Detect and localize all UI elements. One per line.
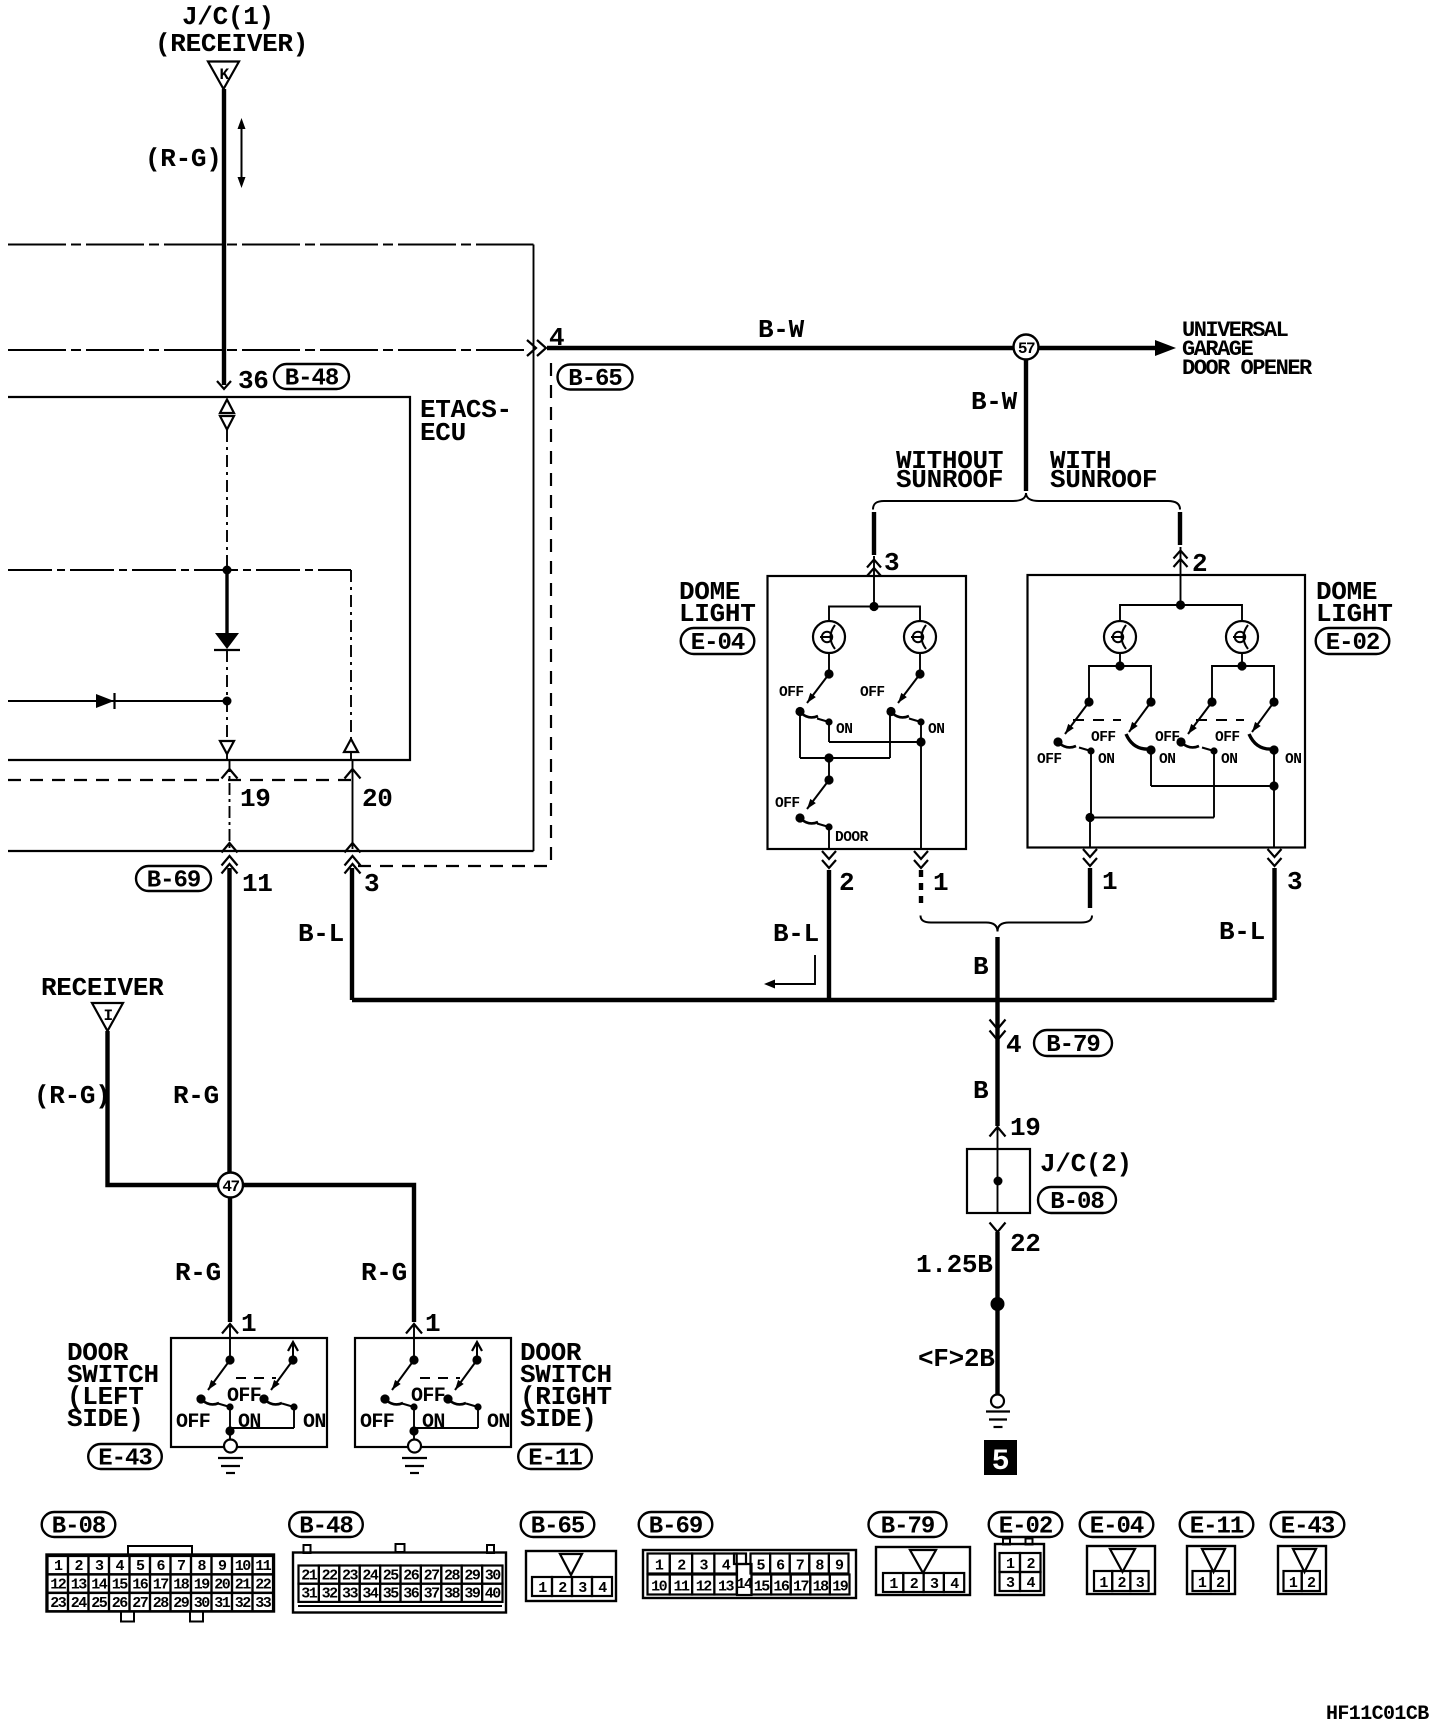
svg-text:J/C(2): J/C(2)	[1040, 1149, 1132, 1179]
lamp left E-04	[813, 621, 845, 653]
connector chevron J/C(2) pin 19	[990, 1127, 1006, 1137]
wire R-G splice 47 to left door switch	[228, 1197, 232, 1322]
wire switch1 ON down	[828, 722, 830, 742]
svg-text:I: I	[103, 1007, 112, 1025]
svg-text:R-G: R-G	[173, 1081, 219, 1111]
svg-text:B-79: B-79	[881, 1514, 935, 1541]
internal dash-dot wire right branch	[350, 570, 352, 740]
wire R-G from J/C(1) to ETACS-ECU pin 36	[222, 89, 226, 385]
connector B-79 label	[869, 1512, 947, 1537]
dome light E-04 box	[768, 576, 967, 849]
harness boundary dash-dot line upper	[8, 244, 534, 246]
connector B-69 pin table	[643, 1550, 856, 1598]
junction node	[991, 1297, 1005, 1311]
svg-text:32: 32	[235, 1595, 252, 1612]
svg-text:21: 21	[235, 1577, 252, 1594]
svg-text:SIDE): SIDE)	[520, 1404, 597, 1434]
svg-text:ON: ON	[1159, 752, 1175, 768]
svg-text:R-G: R-G	[175, 1258, 221, 1288]
svg-text:57: 57	[1018, 340, 1035, 358]
internal wire to diode	[225, 574, 228, 633]
svg-text:40: 40	[485, 1586, 502, 1603]
connector E-11 label	[1180, 1512, 1254, 1537]
svg-text:ON: ON	[238, 1411, 261, 1434]
svg-text:29: 29	[173, 1595, 190, 1612]
wire into J/C(2)	[997, 1127, 999, 1181]
svg-text:33: 33	[255, 1595, 272, 1612]
internal wire with diode arrow	[8, 700, 227, 702]
svg-text:21: 21	[301, 1568, 318, 1585]
svg-text:11: 11	[673, 1578, 690, 1595]
bidirectional arrow symbol	[241, 127, 243, 179]
internal connector triangles	[220, 400, 234, 414]
svg-text:B: B	[973, 1076, 989, 1106]
svg-text:OFF: OFF	[779, 685, 804, 701]
connector E-02 label	[989, 1512, 1063, 1537]
connector symbol I (receiver triangle)	[92, 1003, 123, 1031]
internal dash-dot wire horizontal	[8, 569, 351, 571]
door switch right internals	[409, 1355, 418, 1364]
svg-text:SIDE): SIDE)	[67, 1404, 144, 1434]
svg-text:31: 31	[301, 1586, 318, 1603]
svg-text:ON: ON	[487, 1411, 510, 1434]
svg-text:12: 12	[696, 1578, 713, 1595]
splice 57	[1014, 335, 1039, 360]
svg-text:15: 15	[112, 1577, 129, 1594]
wire lamp left down	[1119, 653, 1121, 666]
svg-text:19: 19	[240, 784, 271, 814]
wire arm1 ON down to pin1 bus	[1090, 751, 1092, 818]
wire arm4 hook down	[1273, 750, 1275, 786]
svg-text:24: 24	[71, 1595, 88, 1612]
wire to door switch arm	[828, 758, 830, 780]
svg-text:38: 38	[444, 1586, 461, 1603]
svg-text:20: 20	[362, 784, 393, 814]
splice 47	[218, 1173, 243, 1198]
svg-text:26: 26	[112, 1595, 129, 1612]
wire pivot bus E-04	[800, 757, 890, 759]
svg-text:35: 35	[383, 1586, 400, 1603]
connector chevrons E-02 pin 3	[1268, 849, 1282, 857]
svg-text:27: 27	[424, 1568, 440, 1585]
svg-text:18: 18	[173, 1577, 190, 1594]
svg-text:DOOR OPENER: DOOR OPENER	[1182, 356, 1313, 381]
connector chevrons E-04 pin 1	[914, 851, 928, 859]
internal triangle down pin19	[220, 741, 234, 754]
svg-text:17: 17	[153, 1577, 169, 1594]
svg-text:B-69: B-69	[649, 1514, 703, 1541]
svg-text:SUNROOF: SUNROOF	[1050, 465, 1157, 495]
svg-text:E-11: E-11	[528, 1446, 582, 1473]
svg-text:30: 30	[485, 1568, 502, 1585]
wire pin1 bus E-02	[1090, 817, 1214, 819]
connector chevrons E-04 pin 3	[867, 560, 881, 568]
svg-text:23: 23	[50, 1595, 67, 1612]
svg-text:B-48: B-48	[299, 1514, 353, 1541]
connector B-08 pin table	[47, 1555, 275, 1612]
harness boundary bottom solid	[8, 850, 534, 852]
arrow continuation symbol	[772, 955, 815, 984]
connector B-69 crossing pin 11	[222, 843, 238, 853]
svg-text:2: 2	[839, 868, 854, 898]
svg-text:B-79: B-79	[1046, 1032, 1100, 1059]
svg-text:1: 1	[241, 1309, 256, 1339]
svg-text:22: 22	[322, 1568, 339, 1585]
node E-02 feed junction	[1176, 600, 1185, 609]
ground symbol left	[218, 1457, 243, 1459]
connector B-65 pin table	[526, 1551, 616, 1601]
wire switch2 ON down to pin1	[920, 722, 922, 742]
svg-text:E-43: E-43	[1281, 1514, 1335, 1541]
svg-text:E-02: E-02	[1326, 630, 1380, 657]
wire B-L bus	[352, 998, 1275, 1002]
svg-text:ON: ON	[1098, 752, 1114, 768]
svg-text:1: 1	[933, 868, 948, 898]
connector B-48 label	[289, 1512, 363, 1537]
connector E-04 label	[681, 628, 755, 654]
wire from ECU pin 3 down to bus	[350, 868, 354, 1000]
svg-text:E-11: E-11	[1190, 1514, 1244, 1541]
svg-text:28: 28	[153, 1595, 170, 1612]
dashed connector boundary vertical	[550, 363, 552, 866]
ECU dashed extension line	[8, 779, 356, 781]
svg-text:3: 3	[1287, 867, 1302, 897]
wire B-L from E-04 pin 2 to bus	[827, 870, 831, 1000]
svg-text:27: 27	[132, 1595, 148, 1612]
svg-text:5: 5	[992, 1445, 1010, 1479]
svg-text:12: 12	[50, 1577, 67, 1594]
contact ON arm1 E-02	[1079, 748, 1091, 752]
connector chevrons E-02 pin 1	[1083, 849, 1097, 857]
svg-text:32: 32	[322, 1586, 339, 1603]
brace joining pin1 wires	[921, 916, 1093, 932]
wire B-W down from splice 57	[1024, 360, 1028, 491]
svg-text:36: 36	[403, 1586, 420, 1603]
svg-text:(R-G): (R-G)	[145, 144, 222, 174]
brace splitting B-W to dome lights	[873, 493, 1180, 510]
svg-text:33: 33	[342, 1586, 359, 1603]
ETACS-ECU box	[8, 397, 410, 760]
wire into E-04	[873, 556, 875, 606]
svg-text:25: 25	[383, 1568, 400, 1585]
svg-text:16: 16	[132, 1577, 149, 1594]
svg-text:B-65: B-65	[531, 1514, 585, 1541]
svg-text:7: 7	[796, 1557, 804, 1574]
svg-text:17: 17	[793, 1578, 809, 1595]
internal triangle up pin20	[344, 739, 358, 752]
svg-text:OFF: OFF	[1155, 730, 1180, 746]
dome light E-02 box	[1028, 575, 1306, 848]
connector B-79 pin table	[876, 1547, 970, 1595]
connector chevrons E-02 pin 2	[1174, 551, 1188, 559]
svg-text:ON: ON	[1285, 752, 1301, 768]
svg-text:20: 20	[214, 1577, 231, 1594]
wire stub to dome light E-02 pin 2	[1178, 512, 1182, 545]
wire 1.25B to ground	[995, 1232, 999, 1395]
svg-text:OFF: OFF	[1037, 752, 1062, 768]
svg-text:ON: ON	[836, 722, 852, 738]
svg-text:19: 19	[832, 1578, 849, 1595]
connector B-79 crossing chevrons	[990, 1020, 1006, 1030]
svg-text:ON: ON	[1221, 752, 1237, 768]
switch arm 3 E-02	[1188, 702, 1212, 734]
svg-text:39: 39	[464, 1586, 481, 1603]
connector B-69 label	[136, 866, 211, 891]
wire R-G from ECU pin 11 to splice 47	[227, 868, 231, 1173]
door switch right box	[355, 1338, 511, 1447]
svg-text:34: 34	[362, 1586, 379, 1603]
switch arm 4 E-02	[1252, 702, 1274, 732]
wire E-02 lamp feed	[1120, 605, 1242, 621]
wire B-L from E-02 pin 3 to bus	[1272, 868, 1276, 1000]
wire arm3 ON down	[1213, 751, 1215, 818]
svg-text:E-02: E-02	[999, 1514, 1053, 1541]
wire (R-G) from receiver to splice 47	[108, 1031, 220, 1185]
svg-text:15: 15	[754, 1578, 771, 1595]
svg-text:30: 30	[194, 1595, 211, 1612]
wire lamp right down	[1241, 653, 1243, 666]
svg-text:LIGHT: LIGHT	[1316, 599, 1393, 629]
svg-text:19: 19	[194, 1577, 211, 1594]
wire to B-65 pin 4 (dash-dot)	[8, 349, 524, 351]
svg-text:13: 13	[71, 1577, 88, 1594]
connector B-65 label	[558, 365, 633, 390]
svg-text:B-08: B-08	[1050, 1189, 1104, 1216]
gang dashes switch pair B	[1196, 719, 1244, 721]
diode	[215, 633, 239, 649]
svg-text:16: 16	[773, 1578, 790, 1595]
svg-text:22: 22	[1010, 1229, 1041, 1259]
svg-text:23: 23	[342, 1568, 359, 1585]
internal wire below diode	[226, 650, 228, 740]
svg-text:B-69: B-69	[147, 868, 201, 895]
svg-text:ECU: ECU	[420, 418, 466, 448]
svg-text:18: 18	[813, 1578, 830, 1595]
wire E-04 lamp feed	[829, 607, 920, 622]
wire out of J/C(2)	[997, 1181, 999, 1213]
svg-text:4: 4	[1006, 1030, 1021, 1060]
connector B-69 crossing pin 3	[345, 843, 361, 853]
svg-text:E-04: E-04	[1090, 1514, 1144, 1541]
connector B-69 label	[639, 1512, 713, 1537]
svg-text:J/C(1): J/C(1)	[182, 2, 274, 32]
svg-text:B-65: B-65	[568, 366, 622, 393]
svg-text:36: 36	[238, 366, 269, 396]
wire ECU pin 20	[352, 760, 354, 849]
door switch left box	[171, 1338, 327, 1447]
svg-text:OFF: OFF	[176, 1411, 210, 1434]
connector B-48 pin table	[293, 1553, 506, 1613]
svg-text:RECEIVER: RECEIVER	[41, 973, 164, 1003]
svg-text:10: 10	[651, 1578, 668, 1595]
svg-text:ON: ON	[422, 1411, 445, 1434]
svg-text:ON: ON	[928, 722, 944, 738]
junction block J/C(2) B-08	[967, 1149, 1030, 1213]
wire up to switch2 pivot	[889, 712, 891, 759]
svg-text:37: 37	[424, 1586, 440, 1603]
svg-text:24: 24	[362, 1568, 379, 1585]
lamp right E-04	[904, 621, 936, 653]
wire ECU pin 19	[229, 760, 231, 849]
ground symbol right	[402, 1457, 427, 1459]
contact DOOR E-04	[817, 824, 829, 828]
door switch left internals	[225, 1355, 234, 1364]
svg-text:OFF: OFF	[360, 1411, 394, 1434]
svg-text:7: 7	[177, 1558, 185, 1575]
wire to pin 3 E-02	[1273, 786, 1275, 848]
wire to pin 1 E-02	[1089, 818, 1091, 848]
svg-text:B-08: B-08	[52, 1514, 106, 1541]
svg-text:(RECEIVER): (RECEIVER)	[155, 29, 308, 59]
svg-text:OFF: OFF	[1215, 730, 1240, 746]
wire B down from brace	[995, 937, 999, 1126]
connector E-43 label	[1271, 1512, 1345, 1537]
wire R-G splice 47 to right door switch	[243, 1185, 414, 1322]
svg-text:B-48: B-48	[285, 366, 339, 393]
connector chevron ECU pin 36	[217, 381, 231, 389]
svg-text:28: 28	[444, 1568, 461, 1585]
svg-text:OFF: OFF	[1091, 730, 1116, 746]
ground symbol	[991, 1395, 1004, 1408]
switch arm 2 E-02	[1129, 702, 1151, 732]
svg-text:29: 29	[464, 1568, 481, 1585]
svg-text:<F>2B: <F>2B	[918, 1344, 995, 1374]
connector B-65 crossing chevrons	[527, 340, 536, 356]
connector B-79 label	[1034, 1030, 1112, 1056]
svg-text:E-43: E-43	[98, 1446, 152, 1473]
svg-text:22: 22	[255, 1577, 272, 1594]
svg-text:11: 11	[255, 1558, 272, 1575]
svg-text:31: 31	[214, 1595, 231, 1612]
connector E-02 pin table	[995, 1544, 1044, 1595]
connector E-04 pin table	[1087, 1546, 1155, 1594]
svg-text:3: 3	[364, 869, 379, 899]
connector E-11 pin table	[1187, 1546, 1235, 1594]
lamp right E-02	[1226, 621, 1258, 653]
svg-text:1: 1	[425, 1309, 440, 1339]
svg-text:3: 3	[884, 548, 899, 578]
connector symbol K (J/C(1) receiver triangle)	[208, 62, 239, 90]
wire split to switch arms 1-2	[1089, 666, 1151, 702]
gang dashes switch pair A	[1073, 719, 1121, 721]
wire into E-02	[1180, 547, 1182, 605]
connector chevron door switch right pin 1	[406, 1324, 422, 1334]
dashed wire from E-04 pin 1	[919, 870, 923, 908]
internal node	[223, 566, 232, 575]
svg-text:R-G: R-G	[361, 1258, 407, 1288]
connector chevron door switch left pin 1	[222, 1324, 238, 1334]
connector B-08 label	[42, 1512, 116, 1537]
connector B-48 label	[274, 364, 349, 389]
wire stub to dome light E-04 pin 3	[872, 512, 876, 555]
internal wire dash-dot	[226, 430, 228, 566]
switch arm 2 E-04	[898, 674, 920, 703]
connector E-43 pin table	[1278, 1546, 1326, 1594]
wire ON bus E-04	[829, 741, 921, 743]
ground circle left door switch	[224, 1440, 237, 1453]
contact ON switch1 E-04	[817, 719, 829, 723]
svg-text:10: 10	[235, 1558, 252, 1575]
wire arm2 hook down	[1150, 750, 1152, 786]
wire B-W to universal garage door opener	[547, 346, 1158, 350]
svg-text:LIGHT: LIGHT	[679, 599, 756, 629]
connector chevrons E-04 pin 2	[822, 851, 836, 859]
wire hook bus E-02	[1151, 785, 1274, 787]
svg-text:B-L: B-L	[1219, 917, 1265, 947]
svg-text:14: 14	[91, 1577, 108, 1594]
svg-text:B-W: B-W	[758, 315, 805, 345]
svg-text:SUNROOF: SUNROOF	[896, 465, 1003, 495]
contact ON switch2 E-04	[909, 719, 921, 723]
switch arm 3 (door) E-04	[807, 780, 829, 809]
ground circle right door switch	[408, 1440, 421, 1453]
svg-text:1.25B: 1.25B	[916, 1250, 993, 1280]
svg-text:HF11C01CB: HF11C01CB	[1326, 1703, 1429, 1726]
svg-text:26: 26	[403, 1568, 420, 1585]
svg-text:ON: ON	[303, 1411, 326, 1434]
svg-text:DOOR: DOOR	[835, 830, 869, 846]
wire switch1 pivot down	[799, 712, 801, 759]
connector E-04 label	[1080, 1512, 1154, 1537]
node E-04 feed junction	[869, 602, 878, 611]
svg-text:25: 25	[91, 1595, 108, 1612]
wire from E-02 pin 1	[1088, 868, 1092, 908]
switch arm 1 E-04	[807, 674, 829, 703]
wire split to switch arms 3-4	[1212, 666, 1274, 702]
svg-text:B-L: B-L	[298, 919, 344, 949]
harness boundary vertical solid	[533, 245, 535, 852]
connector E-43 label	[88, 1444, 162, 1469]
svg-text:19: 19	[1010, 1113, 1041, 1143]
contact ON arm3 E-02	[1202, 748, 1214, 752]
lamp left E-02	[1104, 621, 1136, 653]
svg-text:14: 14	[736, 1576, 753, 1593]
svg-text:11: 11	[242, 869, 273, 899]
svg-text:B-L: B-L	[773, 919, 819, 949]
svg-text:B-W: B-W	[971, 387, 1018, 417]
wire lamp left to switch 1	[828, 653, 830, 674]
wire DOOR contact to pin 2	[828, 827, 830, 849]
ground reference 5 black box	[984, 1440, 1017, 1475]
dashed connector boundary horizontal	[358, 865, 551, 867]
connector E-11 label	[518, 1444, 592, 1469]
connector E-02 label	[1316, 628, 1390, 654]
connector B-65 label	[521, 1512, 595, 1537]
connector chevron pin 22	[990, 1223, 1006, 1233]
svg-text:47: 47	[222, 1178, 239, 1196]
svg-text:OFF: OFF	[860, 685, 885, 701]
svg-text:E-04: E-04	[691, 630, 745, 657]
switch arm 1 E-02	[1065, 702, 1089, 734]
svg-text:OFF: OFF	[775, 796, 800, 812]
svg-text:(R-G): (R-G)	[34, 1081, 111, 1111]
svg-text:B: B	[973, 952, 989, 982]
svg-text:13: 13	[718, 1578, 735, 1595]
svg-text:1: 1	[1102, 867, 1117, 897]
wire lamp right to switch 2	[919, 653, 921, 674]
